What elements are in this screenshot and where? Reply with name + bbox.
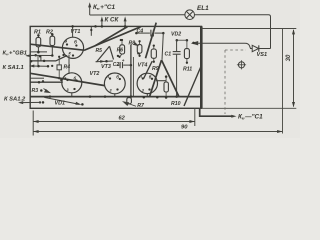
svg-text:б: б <box>74 39 77 45</box>
transistor VT3 <box>101 64 125 97</box>
resistor R7 <box>123 97 145 109</box>
wire R1 branch <box>30 51 47 54</box>
wire W1 diagonal <box>30 44 84 50</box>
wire small pyramid P <box>97 46 110 62</box>
wire SA1.2 arrow <box>18 101 41 104</box>
svg-text:R10: R10 <box>171 101 181 107</box>
svg-text:VS1: VS1 <box>257 52 268 58</box>
wire bus y96.6 <box>30 95 201 98</box>
wire vertical x131 <box>130 45 132 97</box>
svg-text:+: + <box>122 58 125 63</box>
svg-text:62: 62 <box>119 115 126 121</box>
wire diagonal S2 <box>144 61 153 78</box>
diode VD1 <box>42 97 84 106</box>
svg-text:К„+"С1: К„+"С1 <box>93 4 116 11</box>
svg-text:90: 90 <box>181 125 188 131</box>
resistor R4 <box>57 56 70 80</box>
wire EL1 right to VS1 <box>195 15 271 49</box>
wire y82 <box>30 81 63 84</box>
svg-text:б: б <box>116 75 119 80</box>
wire SA1.1 arrow <box>29 65 49 68</box>
dimension 90 <box>33 125 282 134</box>
svg-text:С1: С1 <box>165 51 172 57</box>
transistor VT1 <box>62 25 83 58</box>
wire K CK arrows <box>100 16 126 27</box>
resistor R3 <box>32 88 50 94</box>
capacitor C4 <box>135 28 164 36</box>
wire bottom extension <box>201 107 296 109</box>
wire output C1 minus <box>200 108 237 117</box>
wire diagonal D2a <box>95 27 128 46</box>
svg-text:VT3: VT3 <box>101 64 111 70</box>
resistor R8 <box>117 40 142 57</box>
thyristor VS1 <box>252 45 270 51</box>
mounting hole symbol <box>237 60 246 69</box>
dimension 30 <box>286 29 295 107</box>
svg-text:R11: R11 <box>183 67 192 73</box>
wire y78 <box>30 77 44 79</box>
svg-text:VD1: VD1 <box>55 101 66 107</box>
transistor VT4 <box>137 63 157 97</box>
svg-text:EL1: EL1 <box>197 5 209 12</box>
svg-text:VT2: VT2 <box>90 71 100 77</box>
wire right extension vertical <box>282 29 284 134</box>
svg-text:л: л <box>106 74 110 79</box>
svg-text:R5: R5 <box>96 48 103 54</box>
svg-text:б: б <box>74 76 77 81</box>
wire GB1 entry <box>30 54 64 57</box>
wire triangle right leg <box>162 60 180 97</box>
resistor R9 <box>151 44 159 72</box>
svg-text:К SA1.1: К SA1.1 <box>3 65 24 71</box>
capacitor C1 <box>165 40 181 96</box>
wire top extension line A <box>201 28 296 30</box>
wire EL1 left <box>90 14 185 16</box>
svg-text:К СК: К СК <box>105 17 120 24</box>
wire left bus y61 <box>30 55 67 62</box>
svg-text:VD2: VD2 <box>171 32 181 38</box>
svg-text:R6: R6 <box>117 47 124 53</box>
resistor R11 <box>183 40 192 72</box>
capacitor C2 <box>113 58 132 68</box>
wire diagonal S1 <box>146 23 157 59</box>
transistor VT2 <box>62 71 100 96</box>
svg-text:30: 30 <box>286 54 292 61</box>
wire vertical x163 <box>162 33 163 60</box>
svg-text:л: л <box>138 74 142 79</box>
dimension 62 <box>33 109 195 136</box>
resistor R1 <box>34 30 41 54</box>
lamp EL1 <box>185 10 195 20</box>
junction dots top edge <box>30 25 195 67</box>
wire diagonal D2b <box>84 27 141 51</box>
wire GB1 arrow <box>25 54 38 66</box>
board outline <box>30 26 201 108</box>
resistor R5 <box>96 39 125 58</box>
wire dashed enclosure <box>225 50 246 114</box>
svg-text:VT4: VT4 <box>138 63 148 69</box>
svg-text:VT1: VT1 <box>71 29 81 35</box>
svg-text:К„—"С1: К„—"С1 <box>238 114 263 121</box>
svg-text:К„+"GB1: К„+"GB1 <box>3 50 28 56</box>
wire vertical x91 <box>90 26 92 35</box>
wire vertical x40.9 <box>40 55 42 61</box>
diode VD2 <box>171 32 188 42</box>
wire diagonal right <box>184 65 202 107</box>
wire K+C1 arrow <box>88 2 91 15</box>
resistor R2 <box>46 30 55 56</box>
junction dots lower left <box>42 79 63 83</box>
wire VT4 collector <box>156 80 166 82</box>
wire arrow into board <box>193 42 202 45</box>
wire diagonal D1 <box>30 73 105 85</box>
svg-text:R3: R3 <box>32 88 39 94</box>
svg-text:б: б <box>149 74 152 79</box>
wire small pyramid Q <box>110 46 114 59</box>
svg-text:R7: R7 <box>137 103 145 109</box>
wire triangle left leg <box>150 60 162 97</box>
wire vertical x69 <box>68 55 70 74</box>
wire pyramid base <box>96 60 114 63</box>
resistor R10 <box>164 75 181 106</box>
wire to VS1 <box>201 43 252 48</box>
